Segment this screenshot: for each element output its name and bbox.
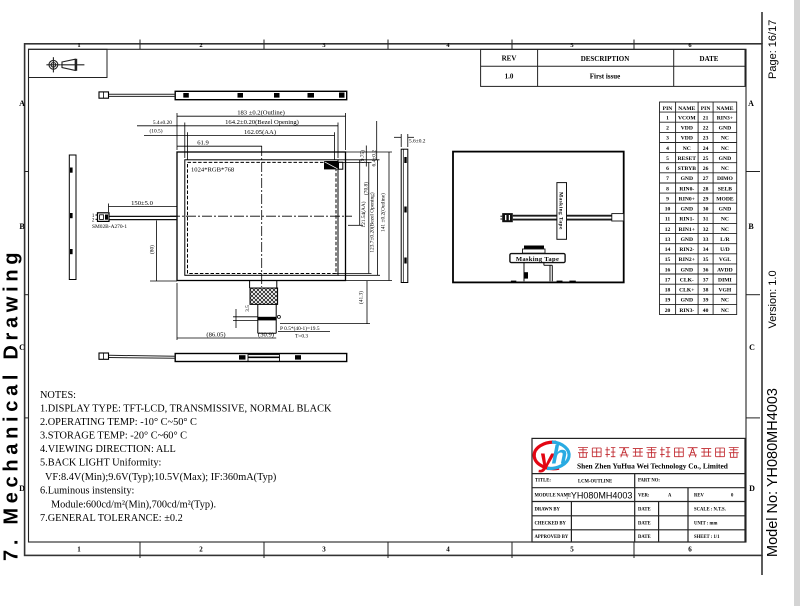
fpc neck	[258, 304, 276, 333]
bottom view strip	[175, 354, 347, 362]
rear fpc fold black bar	[524, 246, 544, 250]
dim 164.2 bezel opening (top)	[137, 123, 338, 159]
svg-text:1: 1	[77, 42, 80, 49]
dim 5.6 thickness	[394, 134, 414, 147]
svg-text:29: 29	[703, 197, 709, 203]
dim (70.8) right	[359, 160, 361, 226]
svg-text:8: 8	[666, 186, 669, 192]
dim 162.05 AA (top)	[144, 132, 335, 160]
svg-text:2: 2	[666, 126, 669, 132]
svg-text:C: C	[749, 343, 755, 352]
svg-text:1.0: 1.0	[505, 72, 514, 80]
svg-text:PART NO:: PART NO:	[638, 479, 660, 484]
rear fpc tail lines	[524, 263, 552, 282]
svg-text:(30.9): (30.9)	[258, 331, 274, 338]
bottom view fpc section	[248, 355, 280, 362]
rear view connector	[502, 213, 513, 222]
svg-text:30: 30	[703, 207, 709, 213]
svg-text:2: 2	[199, 546, 203, 554]
svg-text:GND: GND	[719, 126, 731, 132]
svg-text:RIN3-: RIN3-	[679, 308, 694, 314]
svg-text:T=0.3: T=0.3	[295, 334, 308, 340]
svg-text:3.5: 3.5	[245, 305, 251, 312]
svg-text:Module:600cd/m²(Min),700cd/m²(: Module:600cd/m²(Min),700cd/m²(Typ).	[51, 500, 216, 511]
dim 150 wire length	[109, 206, 178, 208]
dim 3.5	[233, 309, 258, 328]
svg-text:1.DISPLAY TYPE: TFT-LCD, TRAN: 1.DISPLAY TYPE: TFT-LCD, TRANSMISSIVE, N…	[40, 404, 332, 415]
svg-text:164.2±0.20(Bezel Opening): 164.2±0.20(Bezel Opening)	[225, 119, 299, 126]
svg-text:13: 13	[665, 237, 671, 243]
svg-text:STBYB: STBYB	[678, 166, 697, 172]
svg-text:2: 2	[199, 42, 202, 49]
svg-text:24: 24	[703, 146, 709, 152]
svg-text:37: 37	[703, 277, 709, 283]
vertical centerline	[261, 146, 263, 287]
svg-text:7.GENERAL TOLERANCE: ±0.2: 7.GENERAL TOLERANCE: ±0.2	[40, 513, 183, 524]
svg-text:DATE: DATE	[700, 55, 719, 63]
svg-text:A: A	[748, 99, 754, 108]
svg-text:25: 25	[703, 156, 709, 162]
svg-text:61.9: 61.9	[197, 139, 209, 146]
rear view wire exit	[612, 214, 624, 221]
dim 61.9	[177, 145, 262, 147]
svg-text:VF:8.4V(Min);9.6V(Typ);10.5V(M: VF:8.4V(Min);9.6V(Typ);10.5V(Max); IF:36…	[45, 472, 276, 483]
svg-text:SCALE : N.T.S.: SCALE : N.T.S.	[694, 508, 726, 513]
svg-text:RESET: RESET	[678, 156, 697, 162]
svg-text:(10.5): (10.5)	[149, 128, 162, 135]
svg-text:5.BACK LIGHT Uniformity:: 5.BACK LIGHT Uniformity:	[40, 458, 162, 469]
svg-text:SELB: SELB	[718, 186, 733, 192]
dim 6.4 right	[376, 121, 378, 160]
svg-text:4: 4	[446, 546, 450, 554]
svg-text:VGL: VGL	[719, 257, 731, 263]
svg-text:GND: GND	[681, 298, 693, 304]
svg-text:31: 31	[703, 217, 709, 223]
front view active area (dashed)	[188, 162, 337, 273]
svg-text:6: 6	[666, 166, 669, 172]
dim (30.9)	[258, 337, 276, 339]
svg-text:DIMO: DIMO	[717, 176, 733, 182]
svg-text:RIN1-: RIN1-	[679, 217, 694, 223]
svg-text:3: 3	[322, 546, 326, 554]
svg-text:35: 35	[703, 257, 709, 263]
svg-text:CLK+: CLK+	[679, 288, 694, 294]
top view connector	[99, 92, 109, 98]
grid ticks bottom	[140, 542, 634, 558]
svg-text:6: 6	[688, 546, 692, 554]
svg-text:40: 40	[703, 308, 709, 314]
svg-text:B: B	[19, 222, 25, 231]
svg-text:1024*RGB*768: 1024*RGB*768	[191, 167, 235, 174]
svg-text:DRAWN BY: DRAWN BY	[535, 508, 561, 513]
bottom view wire	[109, 355, 176, 358]
bottom view pads	[239, 355, 301, 359]
dim 141 outline right	[346, 152, 393, 281]
svg-text:NAME: NAME	[678, 106, 695, 112]
svg-text:AVDD: AVDD	[717, 267, 732, 273]
svg-text:Model No: YH080MH4003: Model No: YH080MH4003	[765, 388, 781, 557]
front view module outline	[177, 152, 346, 281]
svg-text:First issue: First issue	[590, 72, 621, 80]
svg-text:150±5.0: 150±5.0	[131, 200, 153, 207]
fpc stiffener (hatched)	[250, 288, 278, 304]
svg-text:7: 7	[666, 176, 669, 182]
grid ticks top	[140, 40, 634, 50]
svg-text:DATE: DATE	[638, 508, 651, 513]
svg-text:1: 1	[666, 116, 669, 122]
svg-text:17: 17	[665, 277, 671, 283]
rear horizontal masking tape label	[510, 254, 565, 263]
dim 121.54 AA right	[336, 162, 372, 273]
svg-text:GND: GND	[681, 176, 693, 182]
svg-text:141 ±0.2(Outline): 141 ±0.2(Outline)	[380, 193, 387, 232]
svg-text:21: 21	[703, 116, 709, 122]
dim (41.3)	[280, 281, 370, 324]
svg-text:20: 20	[665, 308, 671, 314]
svg-text:NC: NC	[721, 298, 729, 304]
svg-text:RIN2-: RIN2-	[679, 247, 694, 253]
svg-text:NC: NC	[721, 308, 729, 314]
pin table text	[663, 106, 734, 314]
svg-text:REV: REV	[694, 494, 705, 499]
fpc contact bar	[258, 317, 276, 321]
fpc pitch note	[278, 331, 330, 333]
svg-text:18: 18	[665, 288, 671, 294]
grid column numbers top	[77, 42, 692, 49]
right side view	[401, 149, 408, 282]
third-angle projection symbol box	[29, 49, 108, 77]
svg-text:(86.05): (86.05)	[206, 331, 225, 338]
svg-text:23: 23	[703, 136, 709, 142]
svg-text:DATE: DATE	[638, 522, 651, 527]
svg-text:DIMI: DIMI	[718, 277, 732, 283]
svg-text:APPROVED BY: APPROVED BY	[535, 535, 569, 540]
rear fpc tail pad	[524, 272, 528, 278]
svg-text:14: 14	[665, 247, 671, 253]
svg-text:39: 39	[703, 298, 709, 304]
fpc screw circle	[277, 315, 280, 318]
svg-text:U/D: U/D	[720, 247, 730, 253]
svg-text:4.VIEWING DIRECTION: ALL: 4.VIEWING DIRECTION: ALL	[40, 444, 176, 455]
backlight wire	[109, 216, 177, 219]
svg-text:11: 11	[665, 217, 670, 223]
title block frame	[532, 438, 745, 542]
svg-text:RIN3+: RIN3+	[717, 116, 733, 122]
svg-text:RIN2+: RIN2+	[679, 257, 695, 263]
title block texts	[535, 479, 735, 541]
svg-text:Masking Tape: Masking Tape	[516, 256, 559, 263]
svg-text:GND: GND	[681, 267, 693, 273]
svg-text:6.4±0.2: 6.4±0.2	[372, 150, 378, 167]
svg-text:PIN: PIN	[663, 106, 673, 112]
svg-text:B: B	[748, 222, 754, 231]
svg-text:LCM-OUTLINE: LCM-OUTLINE	[578, 480, 612, 485]
fpc shoulders	[250, 281, 277, 289]
grid row letters right	[748, 99, 755, 493]
svg-text:5: 5	[570, 546, 574, 554]
dim 183 outline (top)	[177, 113, 346, 150]
svg-text:26: 26	[703, 166, 709, 172]
svg-text:Masking Tape: Masking Tape	[557, 192, 563, 230]
corner mark triangle	[324, 161, 343, 169]
svg-text:CHECKED BY: CHECKED BY	[535, 522, 567, 527]
company logo yh	[534, 442, 569, 469]
svg-text:Page: 16/17: Page: 16/17	[767, 20, 779, 79]
svg-text:27: 27	[703, 176, 709, 182]
svg-text:NC: NC	[721, 217, 729, 223]
svg-text:VDD: VDD	[681, 136, 693, 142]
svg-text:38: 38	[703, 288, 709, 294]
front view bezel opening	[185, 160, 338, 275]
svg-text:GND: GND	[681, 237, 693, 243]
svg-text:CLK-: CLK-	[680, 277, 694, 283]
rear view wire	[513, 216, 612, 220]
svg-text:GND: GND	[681, 207, 693, 213]
svg-text:5: 5	[666, 156, 669, 162]
left side view	[69, 155, 76, 280]
svg-text:2.OPERATING TEMP: -10° C~50° C: 2.OPERATING TEMP: -10° C~50° C	[40, 417, 197, 428]
revision table	[481, 49, 745, 86]
top view wire	[109, 94, 176, 96]
top view pads	[183, 93, 344, 98]
svg-text:16: 16	[665, 267, 671, 273]
svg-text:(80): (80)	[149, 245, 156, 254]
svg-text:34: 34	[703, 247, 709, 253]
svg-text:1: 1	[77, 546, 81, 554]
svg-text:: YH080MH4003: : YH080MH4003	[566, 491, 632, 501]
svg-text:VDD: VDD	[681, 126, 693, 132]
svg-text:L/R: L/R	[720, 237, 730, 243]
svg-text:SHEET : 1/1: SHEET : 1/1	[694, 535, 720, 540]
rear bottom edge marks	[511, 281, 576, 283]
svg-text:D: D	[749, 484, 755, 493]
dim (80)	[156, 221, 158, 282]
svg-text:28: 28	[703, 186, 709, 192]
svg-text:SM02B-A270-1: SM02B-A270-1	[92, 224, 127, 230]
inner border frame	[29, 49, 747, 542]
svg-text:Version: 1.0: Version: 1.0	[767, 270, 779, 328]
svg-text:VGH: VGH	[719, 288, 732, 294]
svg-text:121.54(AA): 121.54(AA)	[360, 201, 367, 227]
svg-text:19: 19	[665, 298, 671, 304]
svg-text:NAME: NAME	[716, 106, 733, 112]
svg-text:NOTES:: NOTES:	[40, 390, 76, 401]
svg-text:DATE: DATE	[638, 535, 651, 540]
svg-text:MODE: MODE	[716, 197, 734, 203]
svg-text:RIN0+: RIN0+	[679, 197, 695, 203]
svg-text:6.Luminous instensity:: 6.Luminous instensity:	[40, 486, 135, 497]
svg-text:NC: NC	[721, 227, 729, 233]
rear vertical masking tape label	[557, 183, 567, 240]
svg-text:VER:: VER:	[638, 494, 650, 499]
dim (9.75) right	[338, 146, 392, 167]
grid row letters left	[19, 99, 25, 493]
svg-text:NC: NC	[683, 146, 691, 152]
notes block	[40, 390, 332, 524]
svg-text:RIN0-: RIN0-	[679, 186, 694, 192]
right gray scroll band	[794, 0, 800, 606]
svg-text:GND: GND	[719, 207, 731, 213]
svg-text:NC: NC	[721, 146, 729, 152]
svg-text:3.STORAGE TEMP: -20° C~60° C: 3.STORAGE TEMP: -20° C~60° C	[40, 431, 187, 442]
grid ticks sides	[25, 172, 760, 418]
svg-text:12: 12	[665, 227, 671, 233]
svg-text:PIN: PIN	[701, 106, 711, 112]
svg-text:A: A	[19, 99, 25, 108]
horizontal centerline	[170, 215, 352, 217]
svg-text:UNIT : mm: UNIT : mm	[694, 522, 717, 527]
svg-text:TITLE:: TITLE:	[535, 479, 551, 484]
svg-text:4: 4	[666, 146, 669, 152]
svg-text:7. Mechanical Drawing: 7. Mechanical Drawing	[1, 248, 23, 561]
svg-text:Shen Zhen YuHua Wei Technology: Shen Zhen YuHua Wei Technology Co., Limi…	[577, 462, 729, 471]
svg-text:5.6±0.2: 5.6±0.2	[409, 139, 426, 145]
svg-text:(41.3): (41.3)	[358, 291, 365, 304]
top view strip	[175, 91, 347, 99]
grid column numbers bottom	[77, 546, 692, 554]
svg-text:3: 3	[666, 136, 669, 142]
svg-text:15: 15	[665, 257, 671, 263]
bottom view connector	[99, 353, 109, 359]
svg-text:183 ±0.2(Outline): 183 ±0.2(Outline)	[237, 109, 285, 116]
dim 123.7 bezel right	[338, 160, 380, 275]
rear view outline	[453, 152, 624, 283]
svg-text:10: 10	[665, 207, 671, 213]
third-angle projection symbol	[46, 57, 84, 72]
svg-text:32: 32	[703, 227, 709, 233]
dim (86.05)	[177, 283, 258, 340]
svg-text:P 0.5*(40-1)=19.5: P 0.5*(40-1)=19.5	[280, 325, 320, 332]
svg-text:162.05(AA): 162.05(AA)	[244, 129, 276, 136]
svg-text:9: 9	[666, 197, 669, 203]
svg-text:22: 22	[703, 126, 709, 132]
backlight connector	[98, 213, 110, 222]
svg-text:33: 33	[703, 237, 709, 243]
rear fpc fold box	[523, 249, 546, 253]
company name chinese (stroke glyphs)	[578, 447, 739, 457]
svg-text:VCOM: VCOM	[678, 116, 696, 122]
svg-text:h: h	[552, 440, 568, 470]
svg-text:36: 36	[703, 267, 709, 273]
svg-text:5.4±0.20: 5.4±0.20	[153, 120, 172, 126]
svg-text:REV: REV	[502, 55, 517, 63]
svg-text:NC: NC	[721, 136, 729, 142]
pin table	[660, 102, 737, 315]
svg-text:2: 2	[92, 218, 95, 224]
svg-text:RIN1+: RIN1+	[679, 227, 695, 233]
svg-text:NC: NC	[721, 166, 729, 172]
svg-text:DESCRIPTION: DESCRIPTION	[581, 55, 630, 63]
svg-text:GND: GND	[719, 156, 731, 162]
svg-text:123.7±0.20(Bezel Opening): 123.7±0.20(Bezel Opening)	[369, 192, 376, 252]
